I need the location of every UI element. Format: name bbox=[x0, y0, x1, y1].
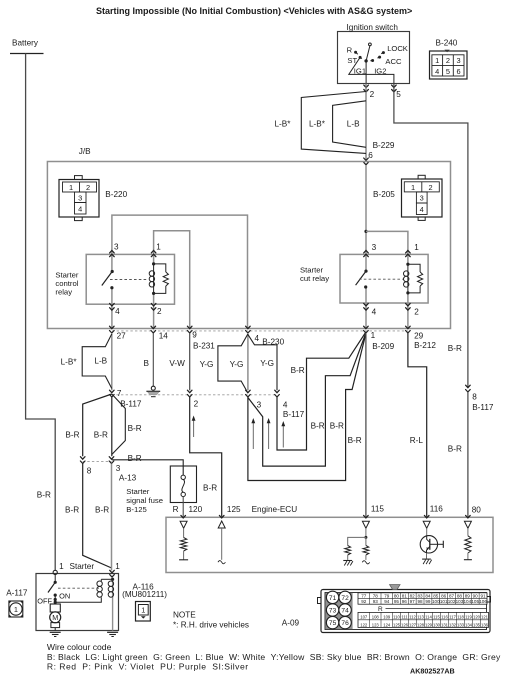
J/B pin 1 B-209 bbox=[364, 326, 369, 329]
ECU pin 120 bbox=[181, 515, 186, 518]
svg-text:29: 29 bbox=[414, 332, 424, 341]
ignition switch IG2 wire bbox=[365, 61, 367, 84]
ignition pin 5 bbox=[392, 85, 397, 88]
control relay pin 1 bbox=[151, 250, 156, 253]
svg-text:M: M bbox=[52, 613, 58, 622]
ECU pin116 transistor bbox=[426, 528, 428, 536]
svg-text:B: Black LG: Light green G:: B: Black LG: Light green G: Green L: Blu… bbox=[47, 652, 501, 662]
svg-text:4: 4 bbox=[255, 334, 260, 343]
svg-text:B-230: B-230 bbox=[262, 338, 284, 347]
svg-text:27: 27 bbox=[117, 332, 127, 341]
wire control relay pin1 to B-231 pin9 bbox=[154, 231, 190, 328]
A-13 pin 3 bbox=[109, 457, 114, 460]
control relay pin 3 bbox=[110, 250, 115, 253]
svg-text:135: 135 bbox=[473, 622, 481, 627]
svg-text:AK802527AB: AK802527AB bbox=[410, 667, 455, 676]
wire branch to cut relay pin 1 bbox=[366, 231, 408, 264]
A-09 cells 92-106 bbox=[369, 598, 371, 604]
svg-text:Engine-ECU: Engine-ECU bbox=[252, 505, 298, 514]
wire branch Y-G to B-117 pin4 bbox=[248, 334, 277, 390]
ignition switch contact LOCK bbox=[382, 51, 385, 54]
svg-text:B-R: B-R bbox=[311, 422, 325, 431]
flow arrow middle loop bbox=[268, 423, 270, 450]
A-09 cells 107-121 bbox=[358, 619, 489, 621]
svg-text:71: 71 bbox=[329, 595, 337, 602]
svg-text:A-13: A-13 bbox=[119, 473, 137, 482]
svg-text:2: 2 bbox=[428, 183, 432, 192]
cut relay pin 2 bbox=[406, 303, 411, 306]
svg-text:B-R: B-R bbox=[330, 422, 344, 431]
svg-text:14: 14 bbox=[159, 331, 169, 340]
svg-text:110: 110 bbox=[393, 615, 400, 620]
wire Y-G pin4 to B-117 pin3 bbox=[247, 333, 249, 390]
ECU pin 115 bbox=[364, 515, 369, 518]
svg-text:Wire colour code: Wire colour code bbox=[47, 642, 112, 652]
ECU pin120 input triangle bbox=[180, 521, 187, 528]
svg-text:R: R bbox=[347, 45, 353, 54]
svg-text:4: 4 bbox=[420, 205, 424, 214]
svg-text:77: 77 bbox=[361, 593, 367, 598]
svg-text:133: 133 bbox=[457, 622, 465, 627]
svg-text:Starter: Starter bbox=[300, 265, 324, 274]
svg-text:LOCK: LOCK bbox=[387, 44, 408, 53]
svg-text:85: 85 bbox=[433, 593, 439, 598]
wire battery B-R bbox=[26, 54, 56, 571]
svg-text:B-R: B-R bbox=[203, 484, 217, 493]
connector B-220 symbol bbox=[59, 180, 99, 218]
cut relay actuation dashed link bbox=[359, 278, 404, 280]
svg-text:126: 126 bbox=[401, 622, 409, 627]
svg-text:8: 8 bbox=[87, 466, 92, 475]
svg-text:2: 2 bbox=[157, 307, 162, 316]
svg-text:3: 3 bbox=[116, 464, 121, 473]
svg-text:123: 123 bbox=[372, 622, 380, 627]
svg-text:121: 121 bbox=[481, 615, 489, 620]
wire pin3 to B-209 middle loop bbox=[248, 333, 366, 466]
starter assembly bbox=[36, 574, 119, 631]
wire branch L-B* inner bbox=[333, 101, 366, 148]
svg-text:J/B: J/B bbox=[79, 147, 91, 156]
svg-text:2: 2 bbox=[446, 56, 450, 65]
starter solenoid wires bbox=[112, 577, 114, 630]
svg-text:6: 6 bbox=[457, 67, 461, 76]
ECU pin115 left ground bbox=[343, 560, 352, 562]
svg-text:B-R: B-R bbox=[291, 366, 305, 375]
wire ignition pin5 B-R to right bbox=[394, 84, 468, 388]
svg-text:Starter: Starter bbox=[55, 270, 79, 279]
J/B pin 29 B-212 bbox=[406, 326, 411, 329]
svg-text:L-B*: L-B* bbox=[309, 119, 326, 128]
svg-text:8: 8 bbox=[472, 393, 477, 402]
svg-text:118: 118 bbox=[457, 615, 464, 620]
svg-text:4: 4 bbox=[78, 205, 82, 214]
svg-text:91: 91 bbox=[481, 593, 487, 598]
svg-text:4: 4 bbox=[283, 401, 288, 410]
svg-text:132: 132 bbox=[449, 622, 457, 627]
svg-text:Battery: Battery bbox=[12, 38, 39, 47]
svg-text:120: 120 bbox=[473, 615, 481, 620]
wire L-B pin27 to B-117 pin7 bbox=[111, 333, 113, 390]
svg-text:B-R: B-R bbox=[95, 505, 109, 514]
ECU pin80 input triangle bbox=[464, 521, 471, 528]
A-09 top tab bbox=[390, 585, 401, 590]
svg-text:3: 3 bbox=[420, 194, 424, 203]
ECU pin115 left resistor bbox=[345, 546, 351, 556]
svg-text:B-R: B-R bbox=[128, 424, 142, 433]
starter solenoid ground bbox=[107, 631, 118, 633]
wire control relay pin4 down bbox=[111, 288, 113, 328]
wire cut relay pin4 down bbox=[365, 287, 367, 328]
svg-text:115: 115 bbox=[371, 505, 384, 514]
starter solenoid dashed link bbox=[58, 587, 99, 589]
svg-text:B-R: B-R bbox=[348, 436, 362, 445]
svg-text:3: 3 bbox=[372, 243, 377, 252]
svg-text:73: 73 bbox=[329, 607, 337, 614]
svg-text:129: 129 bbox=[425, 622, 433, 627]
starter control relay bbox=[86, 254, 174, 304]
wire B-117 pin4 to B-209 inner loop bbox=[277, 332, 366, 450]
svg-text:1: 1 bbox=[14, 605, 18, 614]
wire B-R A-13 pin8 to starter bbox=[83, 464, 112, 568]
control relay pin 4 bbox=[110, 303, 115, 306]
J/B pin 9 B-231 bbox=[187, 326, 192, 329]
cut relay switch bbox=[364, 270, 367, 273]
svg-text:relay: relay bbox=[55, 288, 72, 297]
svg-text:Starter: Starter bbox=[126, 487, 150, 496]
svg-text:127: 127 bbox=[409, 622, 417, 627]
svg-text:3: 3 bbox=[257, 400, 262, 409]
ignition switch contact ST bbox=[359, 56, 362, 59]
svg-text:86: 86 bbox=[441, 593, 447, 598]
svg-text:R: Red P: Pink V: Violet PU: R: Red P: Pink V: Violet PU: Purple SI:S… bbox=[47, 662, 249, 672]
svg-text:90: 90 bbox=[473, 593, 479, 598]
starter signal fuse B-125 bbox=[170, 466, 196, 503]
svg-text:7: 7 bbox=[117, 389, 122, 398]
svg-text:B-209: B-209 bbox=[372, 342, 394, 351]
svg-text:*: R.H. drive vehicles: *: R.H. drive vehicles bbox=[173, 621, 249, 630]
svg-text:1: 1 bbox=[371, 331, 376, 340]
svg-text:119: 119 bbox=[465, 615, 472, 620]
A-09 lower pin block 107-136 bbox=[358, 612, 489, 627]
svg-text:5: 5 bbox=[446, 67, 450, 76]
J/B pin 4 B-230 bbox=[246, 326, 251, 329]
starter solenoid pull-in coil bbox=[100, 579, 102, 581]
starter motor M bbox=[50, 604, 60, 612]
svg-text:Y-G: Y-G bbox=[260, 359, 274, 368]
svg-text:98: 98 bbox=[418, 599, 424, 604]
svg-text:9: 9 bbox=[192, 331, 197, 340]
B-117 pin 7 bbox=[110, 390, 115, 393]
ECU pin80 resistor bbox=[467, 528, 469, 536]
svg-text:4: 4 bbox=[372, 308, 377, 317]
B-117 pin 2 bbox=[187, 390, 192, 393]
J/B pin 27 bbox=[110, 326, 115, 329]
svg-text:2: 2 bbox=[194, 399, 199, 408]
svg-text:95: 95 bbox=[394, 599, 400, 604]
ECU pin120 terminator bar bbox=[179, 559, 188, 561]
ECU pin115 branch wire bbox=[348, 537, 366, 545]
svg-text:Y-G: Y-G bbox=[200, 360, 214, 369]
svg-text:4: 4 bbox=[115, 307, 120, 316]
svg-text:72: 72 bbox=[341, 595, 349, 602]
svg-text:99: 99 bbox=[425, 599, 431, 604]
ignition switch rotor bbox=[364, 59, 367, 62]
svg-text:1: 1 bbox=[411, 183, 415, 192]
svg-text:75: 75 bbox=[329, 620, 337, 627]
svg-text:94: 94 bbox=[384, 599, 390, 604]
svg-text:(MU801211): (MU801211) bbox=[122, 590, 167, 599]
svg-text:L-B*: L-B* bbox=[275, 119, 292, 128]
svg-text:1: 1 bbox=[435, 56, 439, 65]
svg-text:116: 116 bbox=[441, 615, 448, 620]
svg-text:116: 116 bbox=[430, 505, 443, 514]
svg-text:B-231: B-231 bbox=[193, 341, 215, 350]
svg-text:88: 88 bbox=[457, 593, 463, 598]
svg-text:Ignition switch: Ignition switch bbox=[347, 23, 399, 32]
wire R fuse to ECU pin120 bbox=[182, 497, 184, 517]
A-09 left tab bbox=[318, 598, 322, 604]
svg-text:1: 1 bbox=[141, 606, 145, 615]
control relay pin 2 bbox=[151, 303, 156, 306]
svg-text:109: 109 bbox=[383, 615, 391, 620]
svg-text:87: 87 bbox=[449, 593, 455, 598]
svg-text:Starting Impossible (No Initia: Starting Impossible (No Initial Combusti… bbox=[96, 6, 412, 16]
junction box J/B bbox=[47, 162, 450, 329]
svg-text:136: 136 bbox=[481, 622, 489, 627]
svg-text:122: 122 bbox=[360, 622, 368, 627]
svg-text:128: 128 bbox=[417, 622, 425, 627]
svg-text:L-B: L-B bbox=[94, 357, 107, 366]
svg-text:3: 3 bbox=[457, 56, 461, 65]
connector B-205 symbol bbox=[402, 179, 443, 217]
svg-text:Y-G: Y-G bbox=[230, 360, 244, 369]
wire branch Y-G bulge bbox=[218, 334, 248, 393]
svg-text:80: 80 bbox=[472, 505, 482, 514]
svg-text:ACC: ACC bbox=[385, 57, 402, 66]
svg-text:97: 97 bbox=[410, 599, 416, 604]
wire control relay pin2 down bbox=[153, 293, 155, 328]
starter cut relay bbox=[340, 254, 428, 303]
svg-text:74: 74 bbox=[341, 607, 349, 614]
wire cut relay pin2 down bbox=[407, 293, 409, 328]
starter switch to motor wire bbox=[54, 595, 56, 604]
svg-text:B-R: B-R bbox=[448, 344, 462, 353]
connector A-13 dashed row bbox=[83, 460, 112, 462]
svg-text:B-240: B-240 bbox=[436, 39, 458, 48]
svg-text:R: R bbox=[173, 505, 179, 514]
starter pin 1 left bbox=[53, 570, 57, 574]
svg-text:131: 131 bbox=[441, 622, 449, 627]
control relay coil bbox=[153, 264, 155, 294]
svg-text:106: 106 bbox=[479, 599, 487, 604]
ECU pin116 emitter wire bbox=[426, 553, 428, 559]
svg-text:3: 3 bbox=[78, 194, 82, 203]
svg-text:1: 1 bbox=[115, 562, 120, 571]
svg-text:124: 124 bbox=[383, 622, 391, 627]
svg-text:2: 2 bbox=[86, 183, 90, 192]
starter solenoid hold-in coil bbox=[108, 581, 113, 586]
ignition switch ST-IG1 wire bbox=[349, 57, 394, 83]
J/B bottom connector dashed row bbox=[112, 330, 408, 332]
ignition switch contact R bbox=[354, 51, 357, 54]
ECU pin125 output triangle bbox=[218, 521, 225, 528]
svg-text:Starter: Starter bbox=[70, 562, 95, 571]
svg-text:B-R: B-R bbox=[448, 444, 462, 453]
svg-text:L-B*: L-B* bbox=[61, 357, 78, 366]
connector B-117 dashed row bbox=[112, 394, 277, 396]
wire B-212 pin29 to ECU pin116 R-L bbox=[408, 333, 427, 517]
svg-text:signal fuse: signal fuse bbox=[126, 496, 163, 505]
svg-text:1: 1 bbox=[59, 562, 64, 571]
svg-text:76: 76 bbox=[341, 620, 349, 627]
svg-text:112: 112 bbox=[409, 615, 416, 620]
J/B pin 14 bbox=[151, 326, 156, 329]
svg-text:B-R: B-R bbox=[65, 505, 79, 514]
flow arrow pin2 wire bbox=[193, 420, 195, 437]
ECU pin80 terminator bar bbox=[464, 559, 472, 561]
wire B-R right to ECU pin80 bbox=[467, 392, 469, 517]
B-117 pin 8 bbox=[466, 385, 471, 388]
ECU pin 116 bbox=[424, 515, 429, 518]
Engine-ECU box bbox=[166, 517, 493, 572]
svg-text:ON: ON bbox=[59, 591, 70, 600]
control relay actuation dashed link bbox=[110, 279, 148, 281]
svg-text:B-117: B-117 bbox=[283, 410, 305, 419]
svg-text:117: 117 bbox=[449, 615, 456, 620]
wire Y-G pin3 to B-209 outer loop bbox=[248, 334, 366, 481]
cut relay coil bbox=[407, 264, 409, 293]
ECU pin 125 bbox=[219, 515, 224, 518]
starter motor ground bbox=[50, 631, 61, 633]
wire ignition pin2 L-B bbox=[365, 84, 367, 161]
control relay coil resistor bbox=[154, 264, 166, 272]
wire branch to starter signal fuse bbox=[112, 460, 183, 475]
wire branch B-R bulge right bbox=[112, 394, 126, 455]
svg-text:R-L: R-L bbox=[410, 436, 424, 445]
A-09 cells 77-91 bbox=[358, 597, 487, 599]
svg-text:B-R: B-R bbox=[94, 431, 108, 440]
svg-text:83: 83 bbox=[418, 593, 424, 598]
svg-text:113: 113 bbox=[417, 615, 424, 620]
svg-text:B-212: B-212 bbox=[414, 341, 436, 350]
svg-text:107: 107 bbox=[360, 615, 368, 620]
svg-text:130: 130 bbox=[433, 622, 441, 627]
A-09 upper pin block 77-106 bbox=[358, 593, 487, 604]
ignition switch contact IG1-center bbox=[371, 59, 374, 62]
wire control relay pin3 to B-230 pin4 bbox=[112, 215, 248, 328]
wire B-R A-13 pin3 to starter bbox=[111, 464, 113, 571]
ignition switch bbox=[338, 32, 410, 84]
svg-text:NOTE: NOTE bbox=[173, 611, 196, 620]
starter pin 1 right bbox=[110, 570, 115, 573]
B-117 pin 4 bbox=[275, 390, 280, 393]
ECU pin115 right resistor bbox=[365, 537, 367, 545]
svg-text:B-229: B-229 bbox=[373, 141, 395, 150]
svg-text:81: 81 bbox=[402, 593, 408, 598]
svg-text:5: 5 bbox=[396, 90, 401, 99]
svg-text:cut relay: cut relay bbox=[300, 274, 329, 283]
ECU pin116 ground bbox=[422, 558, 431, 560]
svg-text:B-220: B-220 bbox=[105, 190, 127, 199]
ECU pin125 stub wire bbox=[221, 528, 223, 560]
wire V-W pin9 to B-117 pin2 bbox=[189, 333, 191, 390]
ECU pin115 node bbox=[365, 528, 367, 537]
svg-text:92: 92 bbox=[361, 599, 367, 604]
svg-text:2: 2 bbox=[370, 90, 375, 99]
starter switch bbox=[54, 575, 56, 583]
svg-text:108: 108 bbox=[372, 615, 380, 620]
svg-text:B-R: B-R bbox=[65, 431, 79, 440]
svg-text:A-117: A-117 bbox=[6, 588, 28, 597]
flow arrow pin3 wire bbox=[252, 423, 254, 450]
node cut relay coil branch bbox=[364, 230, 367, 233]
svg-text:L-B: L-B bbox=[347, 119, 360, 128]
A-09 right tab bbox=[487, 597, 491, 603]
cut relay pin 3 bbox=[364, 250, 369, 253]
ECU pin115 tilde end bbox=[362, 561, 369, 564]
cut relay pin 1 bbox=[406, 250, 411, 253]
svg-text:84: 84 bbox=[425, 593, 431, 598]
svg-text:120: 120 bbox=[189, 505, 203, 514]
svg-text:B-R: B-R bbox=[37, 490, 51, 499]
svg-text:2: 2 bbox=[414, 308, 419, 317]
svg-text:1: 1 bbox=[69, 183, 73, 192]
B-117 pin 3 bbox=[246, 390, 251, 393]
svg-text:93: 93 bbox=[373, 599, 379, 604]
ignition pin 2 bbox=[364, 85, 369, 88]
cut relay pin 4 bbox=[364, 303, 369, 306]
svg-text:80: 80 bbox=[394, 593, 400, 598]
svg-text:89: 89 bbox=[465, 593, 471, 598]
ECU pin116 input triangle bbox=[423, 521, 430, 528]
wire B-209 to ECU pin115 bbox=[365, 333, 367, 517]
A-09 cells 122-136 bbox=[369, 620, 371, 628]
svg-text:1: 1 bbox=[156, 242, 161, 251]
flow arrow inner loop bbox=[282, 426, 284, 448]
svg-text:79: 79 bbox=[384, 593, 390, 598]
svg-text:4: 4 bbox=[435, 67, 439, 76]
wire branch L-B* outer bbox=[301, 92, 366, 154]
ECU pin 80 bbox=[466, 515, 471, 518]
svg-text:111: 111 bbox=[401, 615, 408, 620]
svg-text:78: 78 bbox=[373, 593, 379, 598]
svg-text:3: 3 bbox=[114, 242, 119, 251]
svg-text:6: 6 bbox=[368, 151, 373, 160]
cut relay coil resistor bbox=[408, 264, 420, 272]
svg-text:96: 96 bbox=[402, 599, 408, 604]
ground below pin 14 bbox=[151, 386, 155, 390]
wire B-R pin7 to A-13 pin8 bbox=[83, 394, 112, 456]
ECU pin120 resistor bbox=[183, 528, 185, 537]
svg-text:V-W: V-W bbox=[169, 359, 185, 368]
svg-text:R: R bbox=[378, 606, 383, 613]
svg-text:115: 115 bbox=[433, 615, 440, 620]
svg-text:125: 125 bbox=[227, 505, 241, 514]
wire J/B main to starter cut relay bbox=[365, 165, 367, 271]
svg-text:82: 82 bbox=[410, 593, 416, 598]
svg-text:125: 125 bbox=[393, 622, 401, 627]
wire branch L-B* bulge bbox=[82, 334, 112, 389]
svg-text:114: 114 bbox=[425, 615, 432, 620]
wire V-W to ECU pin125 bbox=[190, 397, 222, 517]
control relay switch bbox=[111, 270, 114, 273]
svg-text:B: B bbox=[144, 359, 150, 368]
A-09 terminal circles 71-76 bbox=[325, 593, 352, 629]
svg-text:B-R: B-R bbox=[128, 454, 142, 463]
svg-text:1: 1 bbox=[414, 243, 419, 252]
svg-text:B-117: B-117 bbox=[472, 403, 494, 412]
svg-text:A-09: A-09 bbox=[282, 619, 300, 628]
